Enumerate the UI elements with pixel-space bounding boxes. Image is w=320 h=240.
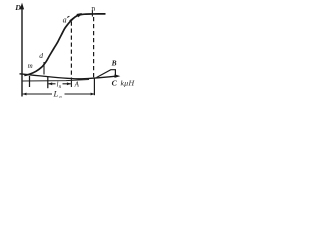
svg-text:a: a [63, 15, 67, 24]
main curve m-a-n [24, 14, 105, 76]
svg-text:C: C [112, 78, 118, 87]
dashed vertical 1 [70, 22, 72, 79]
D axis vertical line [21, 6, 23, 97]
svg-text:d: d [39, 51, 43, 60]
tick below d [43, 62, 45, 75]
dim row2 line left [23, 93, 52, 95]
B bump at right [97, 70, 116, 78]
thin line b under axis [22, 80, 89, 82]
arrow a to curve [70, 15, 78, 21]
svg-text:L: L [53, 88, 59, 98]
tick x47.8 [47, 77, 49, 88]
dim row2 line right [65, 93, 95, 95]
horizontal axis [20, 74, 117, 79]
D axis arrowhead [20, 3, 24, 10]
small dash near a [67, 16, 69, 17]
tick below dashed 1 [70, 79, 72, 87]
dashed vertical 2 [93, 17, 95, 78]
dim row1 left arrow [48, 83, 55, 85]
svg-text:m: m [28, 62, 33, 70]
axis arrowhead [115, 74, 121, 78]
tick at n [91, 11, 93, 17]
svg-text:A: A [74, 81, 80, 89]
dim row1 right arrow [63, 83, 71, 85]
svg-text:kμH: kμH [121, 79, 135, 88]
svg-text:D: D [14, 3, 21, 12]
right extension tick [93, 79, 95, 96]
tick x29.5 [29, 76, 31, 87]
svg-text:B: B [111, 58, 117, 67]
